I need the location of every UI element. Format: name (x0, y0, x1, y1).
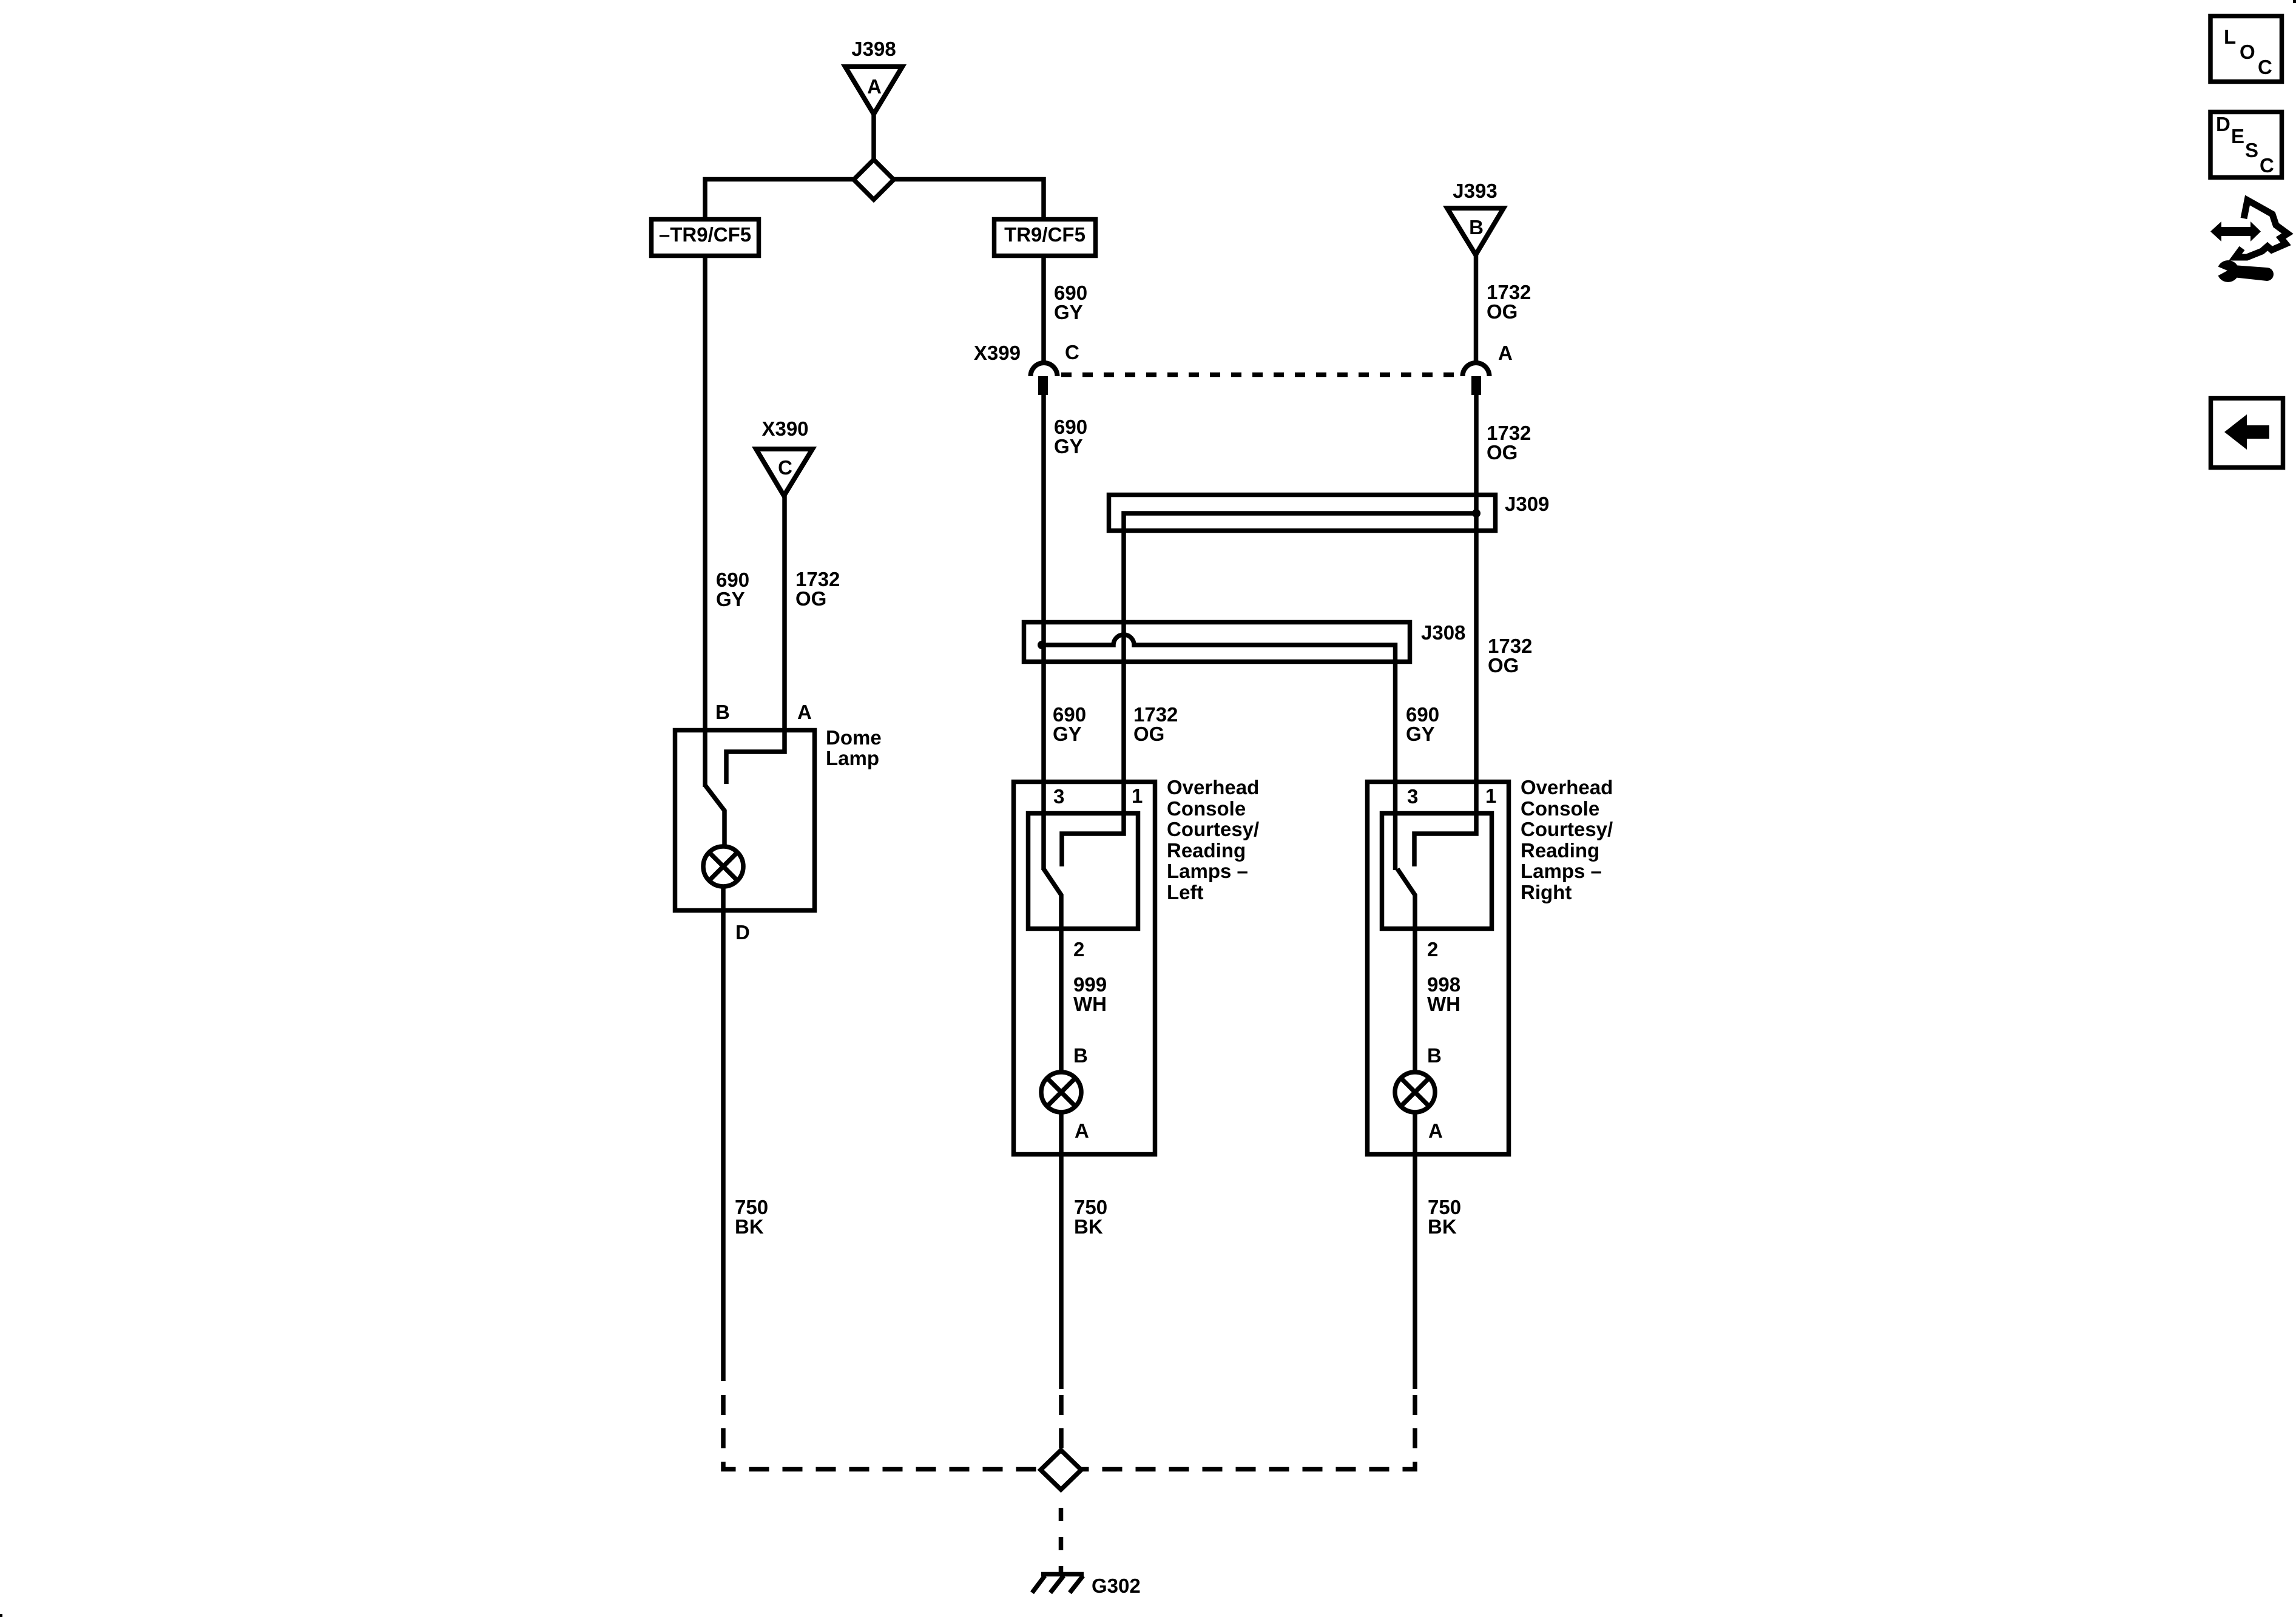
svg-text:A: A (1075, 1119, 1089, 1142)
svg-text:D: D (735, 921, 750, 944)
svg-text:GY: GY (1054, 301, 1083, 323)
svg-text:C: C (2258, 56, 2272, 78)
switch enclosure box (right console) (1382, 814, 1492, 929)
pin 1 label (right console) (1485, 785, 1496, 807)
svg-text:2: 2 (1073, 938, 1084, 960)
icon box DESC (2210, 112, 2282, 178)
svg-text:Console: Console (1521, 797, 1599, 820)
splice symbol J393 (triangle) (1447, 208, 1504, 255)
pin B label (right console) (1427, 1044, 1442, 1067)
wire dashed splice to ground symbol (1059, 1508, 1064, 1573)
wire label 999 WH (left console) (1073, 973, 1107, 1015)
wire lamp to pin A (left console, 750 BK solid) (1059, 1111, 1064, 1389)
wire inside J308 (hop over crossing) down to right console pin 3 (1042, 635, 1396, 870)
svg-text:A: A (867, 75, 882, 98)
svg-text:B: B (715, 701, 730, 723)
pin A label (X399) (1498, 342, 1513, 364)
icon: jump-to-diagram double arrow (2210, 221, 2261, 241)
svg-text:J309: J309 (1505, 493, 1549, 515)
wire label 1732 OG (above pin A) (1487, 281, 1531, 323)
wire label 690 GY (left console pin 3) (1053, 703, 1086, 745)
lamp symbol (right console) (1395, 1072, 1435, 1112)
wire 690 GY from -TR9/CF5 to dome lamp pin B (703, 258, 707, 787)
svg-text:Right: Right (1521, 881, 1572, 903)
wire 1732 OG from X399 A through J309 to right console pin 1 (1414, 395, 1476, 866)
wire 750 BK dashed right (right console to ground splice) (1081, 1395, 1415, 1470)
svg-text:OG: OG (1487, 300, 1518, 323)
junction label J309 (1505, 493, 1549, 515)
wire: bus from splice to -TR9/CF5 (left) and TR9/CF5 (right) (705, 180, 1044, 220)
svg-text:GY: GY (1053, 723, 1082, 745)
switch blade (left console) (1044, 869, 1061, 1073)
icon box back-arrow (2211, 399, 2283, 468)
wire label 690 GY (right console pin 3) (1406, 703, 1439, 745)
connector box TR9/CF5 (994, 220, 1096, 256)
svg-text:Courtesy/: Courtesy/ (1167, 818, 1259, 840)
wire 1732 OG from X390 to dome lamp pin A (726, 496, 785, 784)
pin A label (left console) (1075, 1119, 1089, 1142)
svg-text:WH: WH (1427, 993, 1460, 1015)
wire label 998 WH (right console) (1427, 973, 1460, 1015)
wire lamp to pin D and down (750 BK solid) (721, 885, 726, 1381)
switch blade (right console) (1397, 869, 1415, 1073)
splice symbol J398 (triangle) (845, 67, 902, 114)
terminal pin (X399 A) (1471, 376, 1481, 395)
wire 750 BK dashed center (left console to ground splice) (1059, 1395, 1064, 1448)
svg-text:3: 3 (1407, 785, 1418, 808)
icon box LOC (2210, 16, 2282, 82)
pin B label (dome lamp) (715, 701, 730, 723)
svg-text:BK: BK (1428, 1215, 1457, 1238)
junction block J309 (1109, 495, 1496, 531)
splice label J398 (851, 38, 896, 60)
in-line connector X399 dashed line C to A (1061, 373, 1461, 377)
terminal pin (X399 C) (1038, 376, 1048, 395)
svg-text:O: O (2240, 41, 2255, 63)
svg-text:C: C (778, 456, 792, 479)
icon: jump-to-diagram outline glyph (2235, 200, 2288, 257)
wire 690 GY from TR9/CF5 to connector X399 pin C (1041, 258, 1046, 363)
pin C label (X399) (1065, 341, 1079, 363)
junction dot (J308 / 690 GY) (1038, 641, 1046, 649)
pin A label (J398) (867, 75, 882, 98)
wire label 1732 OG (below pin A) (1487, 422, 1531, 464)
svg-text:X399: X399 (974, 342, 1021, 364)
svg-text:L: L (2224, 25, 2236, 48)
svg-text:TR9/CF5: TR9/CF5 (1004, 223, 1086, 246)
svg-text:Dome: Dome (826, 726, 882, 749)
component label overhead console (right) (1521, 776, 1613, 903)
svg-text:Lamps –: Lamps – (1521, 860, 1602, 882)
wire label 750 BK (left console) (1074, 1196, 1107, 1238)
splice diamond J398 (854, 160, 894, 200)
junction block J308 (1024, 623, 1410, 662)
splice label X390 (761, 417, 808, 440)
splice label J393 (1453, 180, 1497, 202)
svg-text:1: 1 (1132, 785, 1143, 807)
svg-text:J393: J393 (1453, 180, 1497, 202)
wire: J398 stub to splice diamond (871, 113, 876, 163)
svg-text:OG: OG (795, 587, 826, 610)
wire label 750 BK (left) (735, 1196, 768, 1238)
svg-text:C: C (2260, 154, 2274, 177)
wire label 690 GY (above X399) (1054, 282, 1087, 323)
svg-text:Overhead: Overhead (1521, 776, 1613, 798)
component box: overhead console courtesy/reading lamps - left (1014, 782, 1155, 1155)
svg-text:Courtesy/: Courtesy/ (1521, 818, 1613, 840)
component box: Dome Lamp (675, 731, 815, 911)
svg-text:GY: GY (1054, 435, 1083, 457)
svg-text:C: C (1065, 341, 1079, 363)
pin 3 label (right console) (1407, 785, 1418, 808)
svg-text:B: B (1469, 216, 1484, 238)
wire label 690 GY (below X399) (1054, 416, 1087, 457)
ground splice diamond G302 (1041, 1450, 1081, 1490)
switch blade (dome lamp) (705, 785, 724, 848)
svg-text:1: 1 (1485, 785, 1496, 807)
svg-text:GY: GY (716, 588, 745, 610)
svg-text:Lamps –: Lamps – (1167, 860, 1248, 882)
svg-text:OG: OG (1133, 723, 1164, 745)
icon: jump-to-diagram wrench (2212, 260, 2274, 282)
svg-text:G302: G302 (1092, 1575, 1141, 1597)
connector symbol X399 pin C (half circle) (1031, 363, 1058, 376)
svg-text:Reading: Reading (1167, 839, 1246, 862)
splice symbol X390 (triangle) (756, 449, 812, 496)
svg-text:WH: WH (1073, 993, 1107, 1015)
svg-text:A: A (797, 701, 812, 723)
switch enclosure box (left console) (1028, 814, 1138, 929)
svg-text:B: B (1073, 1044, 1088, 1067)
svg-text:2: 2 (1427, 938, 1438, 960)
wire label 690 GY (left branch) (716, 569, 749, 610)
svg-text:E: E (2231, 125, 2244, 147)
ground label G302 (1092, 1575, 1141, 1597)
svg-text:D: D (2216, 113, 2230, 135)
wire 750 BK dashed segment to ground splice (left) (723, 1395, 1041, 1470)
pin 3 label (left console) (1053, 785, 1064, 808)
junction dot (J309 / 1732 OG) (1472, 509, 1481, 518)
lamp symbol (dome lamp) (703, 846, 743, 886)
svg-text:BK: BK (1074, 1215, 1103, 1238)
connector label X399 (974, 342, 1021, 364)
connector box -TR9/CF5 (652, 220, 759, 256)
ground symbol G302 (1041, 1572, 1084, 1577)
connector symbol X399 pin A (half circle) (1463, 363, 1490, 376)
pin 2 label (left console) (1073, 938, 1084, 960)
svg-text:J308: J308 (1421, 621, 1465, 644)
svg-text:X390: X390 (761, 417, 808, 440)
pin D label (dome lamp) (735, 921, 750, 944)
svg-text:Reading: Reading (1521, 839, 1599, 862)
page artifact (top-right corner mark) (2293, 0, 2296, 3)
svg-text:Overhead: Overhead (1167, 776, 1259, 798)
pin B label (left console) (1073, 1044, 1088, 1067)
svg-text:GY: GY (1406, 723, 1435, 745)
wire label 1732 OG (right of J308) (1488, 635, 1532, 677)
component label overhead console (left) (1167, 776, 1259, 903)
svg-text:3: 3 (1053, 785, 1064, 808)
junction label J308 (1421, 621, 1465, 644)
wire label 1732 OG (left console pin 1) (1133, 703, 1178, 745)
svg-text:OG: OG (1488, 654, 1519, 677)
svg-text:Left: Left (1167, 881, 1204, 903)
svg-text:J398: J398 (851, 38, 896, 60)
pin C label (X390) (778, 456, 792, 479)
component label Dome Lamp (826, 726, 882, 769)
svg-text:A: A (1498, 342, 1513, 364)
pin A label (dome lamp) (797, 701, 812, 723)
page artifact (bottom-left corner mark) (0, 1614, 2, 1617)
pin B label (J393) (1469, 216, 1484, 238)
icon: back arrow (2224, 414, 2269, 450)
svg-text:BK: BK (735, 1215, 764, 1238)
component box: overhead console courtesy/reading lamps - right (1368, 782, 1509, 1155)
wire inside J309 and down to left console pin 1 (1062, 513, 1476, 866)
svg-text:B: B (1427, 1044, 1442, 1067)
pin 1 label (left console) (1132, 785, 1143, 807)
pin A label (right console) (1428, 1119, 1443, 1142)
wire label 1732 OG (left branch) (795, 568, 840, 610)
svg-text:A: A (1428, 1119, 1443, 1142)
svg-text:Lamp: Lamp (826, 747, 879, 769)
wire label 750 BK (right console) (1428, 1196, 1461, 1238)
pin 2 label (right console) (1427, 938, 1438, 960)
svg-text:Console: Console (1167, 797, 1246, 820)
svg-text:OG: OG (1487, 441, 1518, 464)
wire 1732 OG from J393 to connector X399 pin A (1474, 255, 1479, 363)
wire 690 GY from X399 to left console pin 3 (1041, 395, 1046, 870)
lamp symbol (left console) (1041, 1072, 1081, 1112)
svg-text:S: S (2245, 139, 2258, 161)
wire lamp to pin A (right console, 750 BK solid) (1413, 1111, 1417, 1389)
svg-text:–TR9/CF5: –TR9/CF5 (659, 223, 751, 246)
